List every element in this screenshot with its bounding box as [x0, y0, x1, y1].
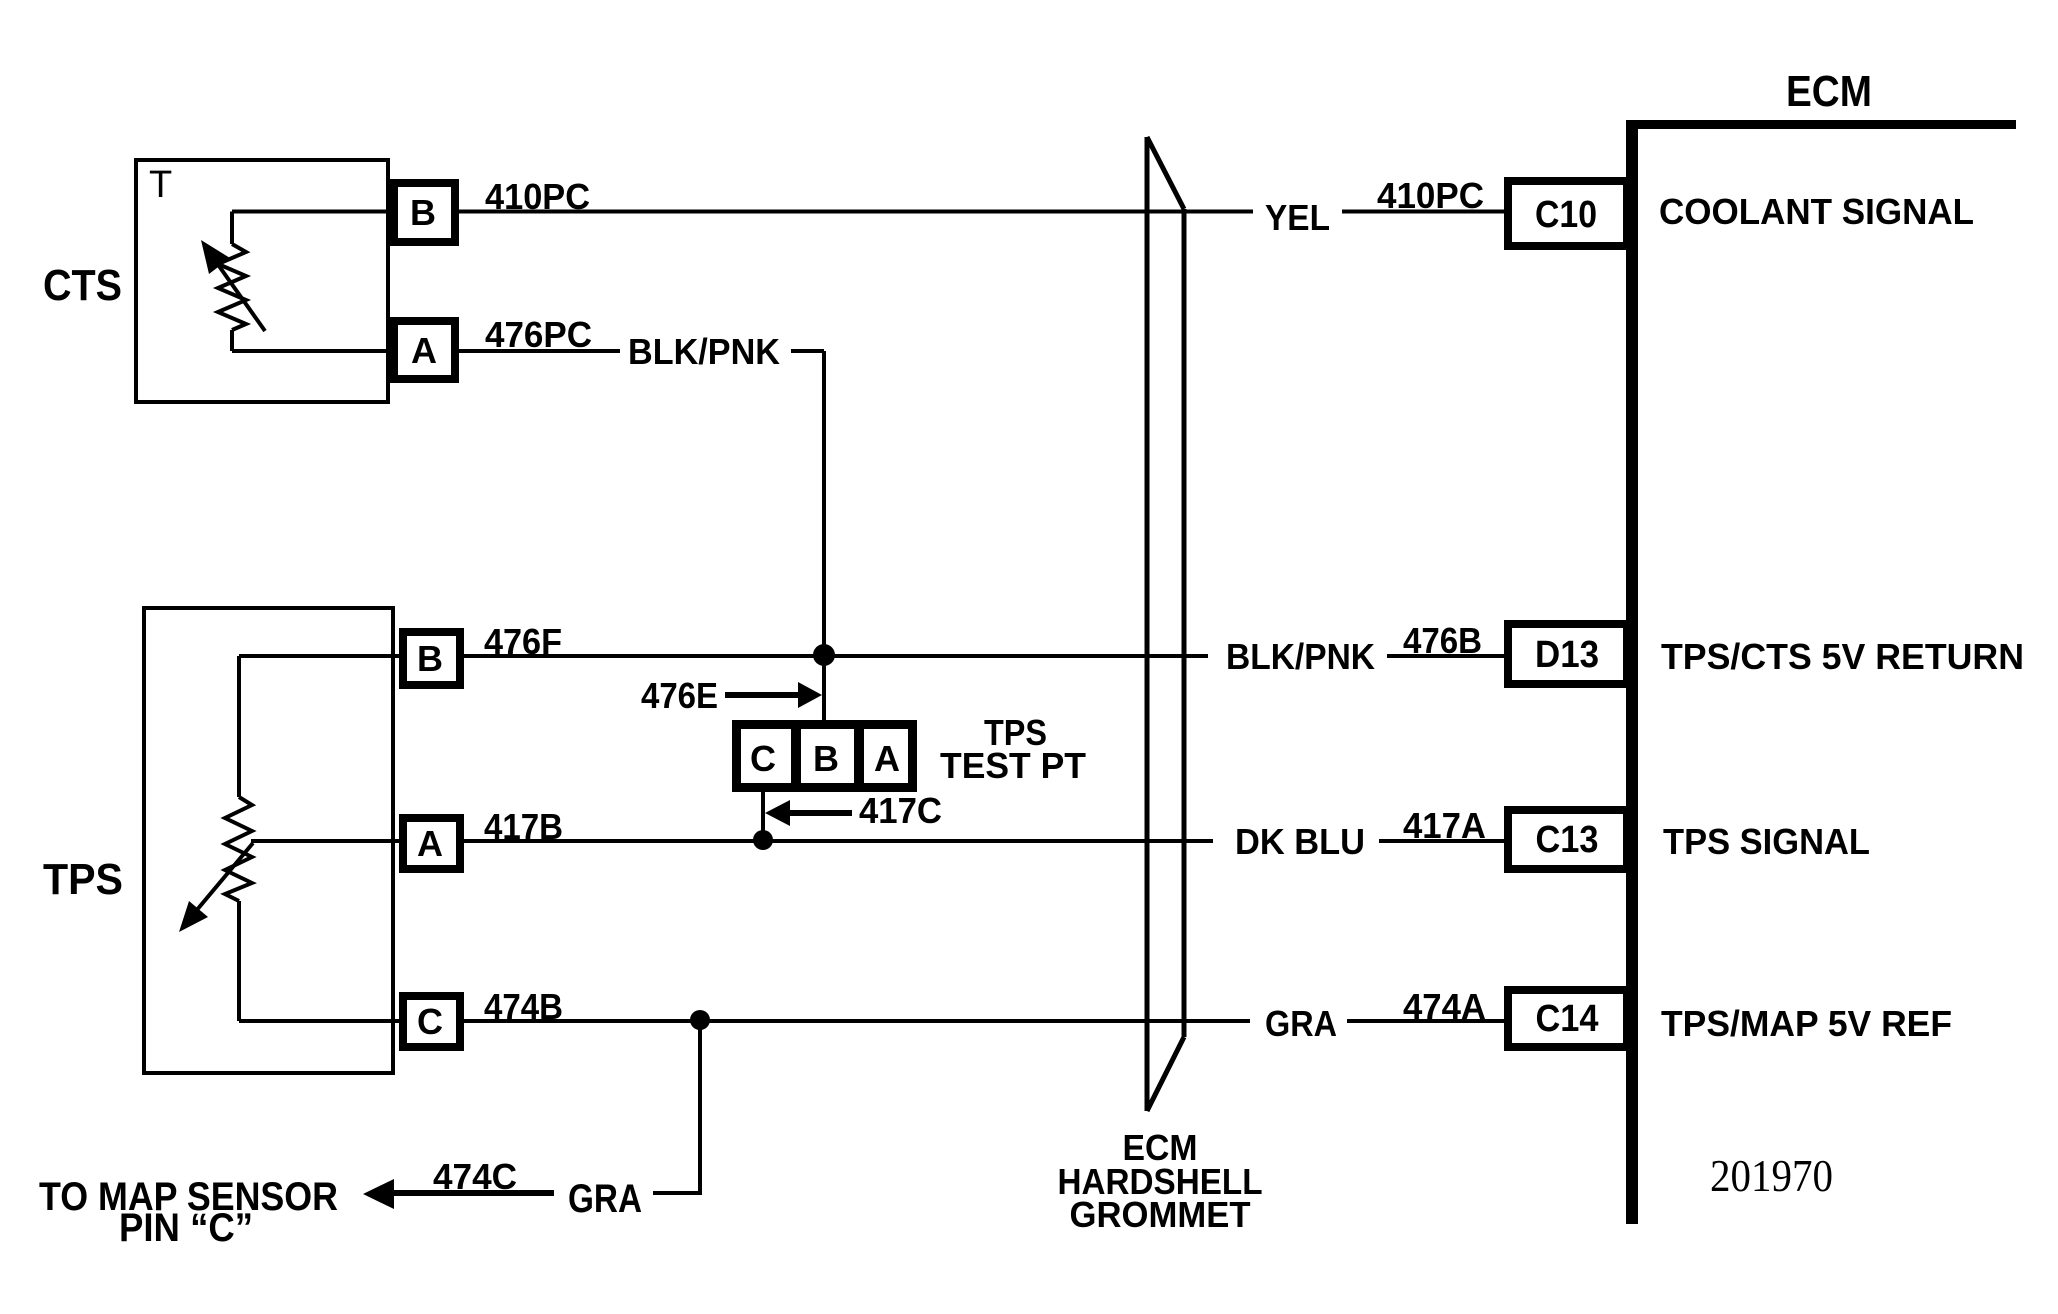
svg-text:CTS: CTS: [43, 261, 122, 310]
svg-text:D13: D13: [1535, 634, 1599, 676]
svg-text:BLK/PNK: BLK/PNK: [628, 331, 780, 372]
svg-text:417B: 417B: [484, 806, 563, 847]
svg-text:C: C: [750, 738, 776, 779]
svg-text:474C: 474C: [433, 1156, 517, 1197]
svg-text:C13: C13: [1536, 819, 1599, 861]
svg-text:C14: C14: [1536, 998, 1599, 1040]
svg-text:417A: 417A: [1403, 805, 1486, 846]
svg-text:B: B: [410, 192, 436, 233]
svg-text:476B: 476B: [1403, 620, 1482, 661]
svg-text:410PC: 410PC: [1377, 175, 1484, 216]
svg-text:476E: 476E: [641, 675, 718, 716]
svg-text:PIN “C”: PIN “C”: [119, 1206, 253, 1250]
svg-text:A: A: [874, 738, 900, 779]
svg-text:476F: 476F: [484, 621, 562, 662]
svg-text:TPS SIGNAL: TPS SIGNAL: [1663, 821, 1870, 862]
svg-text:476PC: 476PC: [485, 314, 592, 355]
svg-text:YEL: YEL: [1265, 197, 1330, 238]
svg-text:B: B: [417, 638, 443, 679]
svg-text:T: T: [149, 164, 172, 206]
svg-text:C: C: [417, 1001, 443, 1042]
svg-text:TPS: TPS: [43, 855, 123, 904]
svg-text:410PC: 410PC: [485, 176, 590, 217]
svg-text:COOLANT SIGNAL: COOLANT SIGNAL: [1659, 191, 1974, 232]
svg-text:DK BLU: DK BLU: [1235, 821, 1365, 862]
svg-text:TPS/MAP 5V REF: TPS/MAP 5V REF: [1661, 1003, 1952, 1044]
svg-text:GRA: GRA: [1265, 1003, 1337, 1044]
svg-text:GROMMET: GROMMET: [1070, 1194, 1251, 1235]
svg-text:BLK/PNK: BLK/PNK: [1226, 636, 1375, 677]
svg-text:GRA: GRA: [568, 1177, 642, 1221]
svg-text:A: A: [411, 330, 437, 371]
svg-text:TPS/CTS 5V RETURN: TPS/CTS 5V RETURN: [1661, 636, 2024, 677]
svg-text:201970: 201970: [1710, 1150, 1833, 1201]
svg-text:C10: C10: [1535, 194, 1597, 236]
svg-text:417C: 417C: [859, 790, 942, 831]
svg-text:B: B: [813, 738, 839, 779]
svg-text:TEST PT: TEST PT: [940, 745, 1086, 786]
svg-text:A: A: [417, 823, 443, 864]
svg-text:ECM: ECM: [1786, 67, 1872, 116]
svg-text:474B: 474B: [484, 986, 563, 1027]
svg-text:474A: 474A: [1403, 986, 1486, 1027]
